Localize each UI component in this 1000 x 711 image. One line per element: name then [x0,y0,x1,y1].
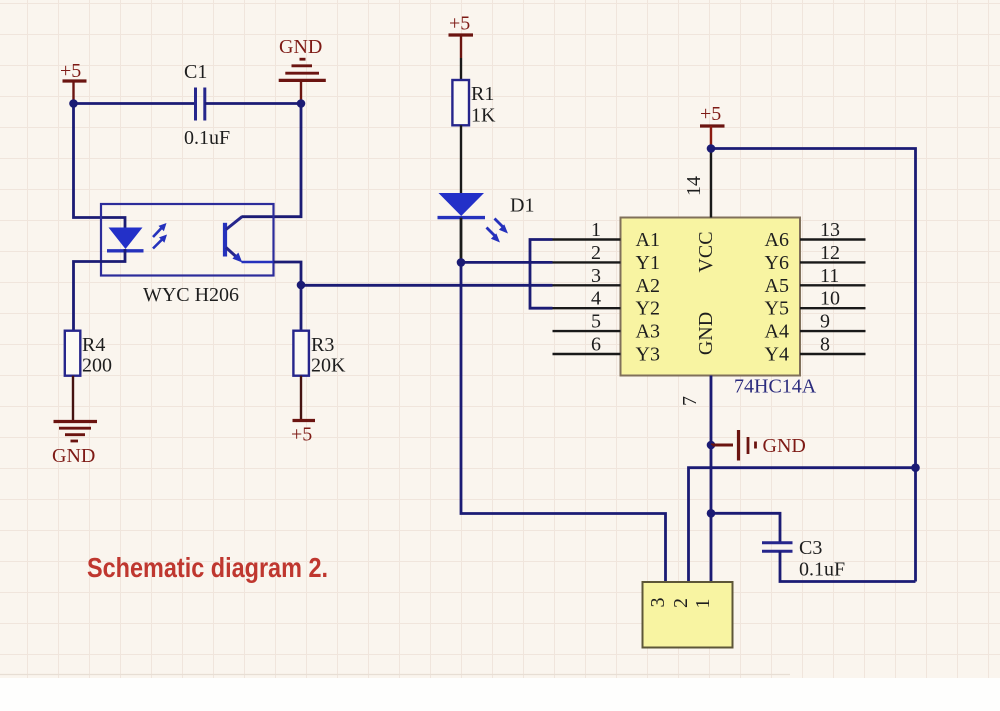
opto emission arrow 1 [153,223,167,237]
wire C3 bottom to +5 rail [780,551,916,581]
pin 2 [553,242,660,274]
svg-text:Y4: Y4 [765,344,789,366]
pin 10 [765,288,866,320]
svg-text:GND: GND [279,36,322,58]
svg-text:C1: C1 [184,61,207,83]
wire top rail left [74,102,196,105]
resistor R1 [452,80,496,127]
opto LED triangle [109,228,143,250]
power +5 top-left [60,60,87,104]
svg-text:R3: R3 [311,334,334,356]
svg-text:Y5: Y5 [765,298,789,320]
node C junction dot [297,281,306,290]
connector J1 body [643,582,733,648]
svg-text:A6: A6 [765,229,789,251]
svg-text:13: 13 [820,219,840,241]
svg-text:Y1: Y1 [636,252,660,274]
wire right drop to opto collector [242,104,302,217]
svg-text:1: 1 [591,219,601,241]
svg-text:C3: C3 [799,537,822,559]
pin 7 [679,376,711,446]
pin 9 [765,311,866,343]
wire node H down to connector pin1 [710,513,713,581]
svg-text:2: 2 [670,598,692,608]
svg-text:R4: R4 [82,334,105,356]
svg-text:+5: +5 [449,13,470,35]
pin 6 [553,334,660,366]
svg-text:GND: GND [763,435,806,457]
D1 emission arrow 1 [487,228,501,243]
LED D1 [438,193,535,218]
opto transistor Q [225,217,274,263]
svg-text:+5: +5 [291,424,312,446]
svg-text:7: 7 [679,396,701,406]
node B junction dot [297,99,306,108]
wire node C to pin3 [301,284,553,287]
svg-text:GND: GND [695,312,717,355]
node D junction dot [457,258,466,267]
pin 4 [553,288,660,320]
svg-text:D1: D1 [510,195,534,217]
svg-text:8: 8 [820,334,830,356]
wire D1 cathode down to node D [460,218,463,263]
opto-coupler U? box WYC H206 [101,204,274,276]
pin 5 [553,311,660,343]
ground GND top-right [279,36,326,104]
svg-text:Y2: Y2 [636,298,660,320]
svg-text:Y6: Y6 [765,252,789,274]
svg-text:9: 9 [820,311,830,333]
power +5 above R1 [449,13,474,59]
svg-text:74HC14A: 74HC14A [734,376,817,398]
svg-text:11: 11 [820,265,839,287]
svg-text:3: 3 [647,598,669,608]
svg-text:2: 2 [591,242,601,264]
svg-text:3: 3 [591,265,601,287]
capacitor C1 [184,61,230,149]
wire +5 rail right and down [711,149,916,582]
D1 emission arrow 2 [495,219,509,234]
power +5 below R3 [291,421,315,446]
node A junction dot [69,99,78,108]
svg-text:+5: +5 [700,103,721,125]
svg-text:A4: A4 [765,321,789,343]
wire node D down and to connector pin3 [461,262,666,581]
svg-text:+5: +5 [60,60,81,82]
pin 13 [765,219,866,251]
ground GND bottom-left [52,422,97,468]
pin 11 [765,265,866,297]
wire node D to pin2 [461,261,553,264]
resistor R3 [293,331,346,377]
svg-text:A5: A5 [765,275,789,297]
wire R1 to D1 [460,125,462,193]
svg-text:14: 14 [683,176,705,196]
opto LED cathode bar [107,249,144,252]
svg-text:1: 1 [692,599,714,609]
power +5 above IC [700,103,725,149]
wire connector pin2 net [689,468,916,582]
wire top rail right [205,102,301,105]
svg-text:0.1uF: 0.1uF [799,559,845,581]
node G junction dot [707,441,716,450]
svg-text:20K: 20K [311,355,346,377]
wire node H to C3 [711,513,780,542]
svg-text:A1: A1 [636,229,660,251]
wire opto cathode to left drop [74,249,126,331]
node E junction dot [707,144,716,153]
svg-text:0.1uF: 0.1uF [184,127,230,149]
svg-text:Schematic diagram 2.: Schematic diagram 2. [87,552,328,583]
svg-text:VCC: VCC [695,231,717,272]
pin 14 [683,149,711,218]
svg-text:10: 10 [820,288,840,310]
svg-text:12: 12 [820,242,840,264]
pin 8 [765,334,866,366]
svg-text:4: 4 [591,288,601,310]
svg-text:6: 6 [591,334,601,356]
wire pin7 down to node H [710,445,713,513]
svg-text:5: 5 [591,311,601,333]
svg-text:R1: R1 [471,83,494,105]
wire opto emitter to node C [274,262,302,285]
resistor R4 [65,331,112,377]
svg-text:1K: 1K [471,105,496,127]
node F junction dot [911,463,920,472]
wire bracket pins 1-4 [530,240,553,309]
node H junction dot [707,509,716,518]
svg-text:A3: A3 [636,321,660,343]
opto emission arrow 2 [153,235,167,249]
wire left drop to opto anode [74,104,126,230]
capacitor C3 [762,537,845,581]
pin 12 [765,242,866,274]
wire +5 to R1 [460,58,462,80]
svg-text:WYC H206: WYC H206 [143,284,239,306]
svg-text:Y3: Y3 [636,344,660,366]
wire R4 to ground [72,376,74,421]
IC U1 74HC14A body [621,218,801,376]
svg-text:A2: A2 [636,275,660,297]
svg-text:200: 200 [82,355,112,377]
pin 3 [553,265,660,297]
pin 1 [553,219,660,251]
wire node C to R3 [300,285,303,331]
svg-text:GND: GND [52,445,95,467]
wire R3 to +5 [300,376,302,421]
ground GND mid-right [711,430,806,461]
